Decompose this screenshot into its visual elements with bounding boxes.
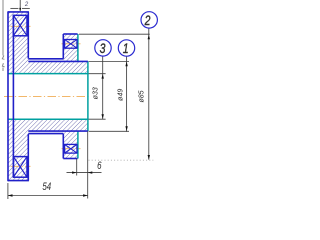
svg-text:2: 2: [144, 13, 151, 29]
svg-text:2: 2: [24, 2, 29, 8]
svg-text:1: 1: [123, 41, 129, 57]
svg-text:6: 6: [97, 160, 102, 173]
svg-text:ø85: ø85: [138, 90, 145, 102]
svg-text:ø33: ø33: [93, 87, 100, 99]
svg-text:3: 3: [100, 40, 106, 56]
svg-text:54: 54: [42, 181, 51, 194]
svg-text:ø49: ø49: [118, 89, 125, 101]
